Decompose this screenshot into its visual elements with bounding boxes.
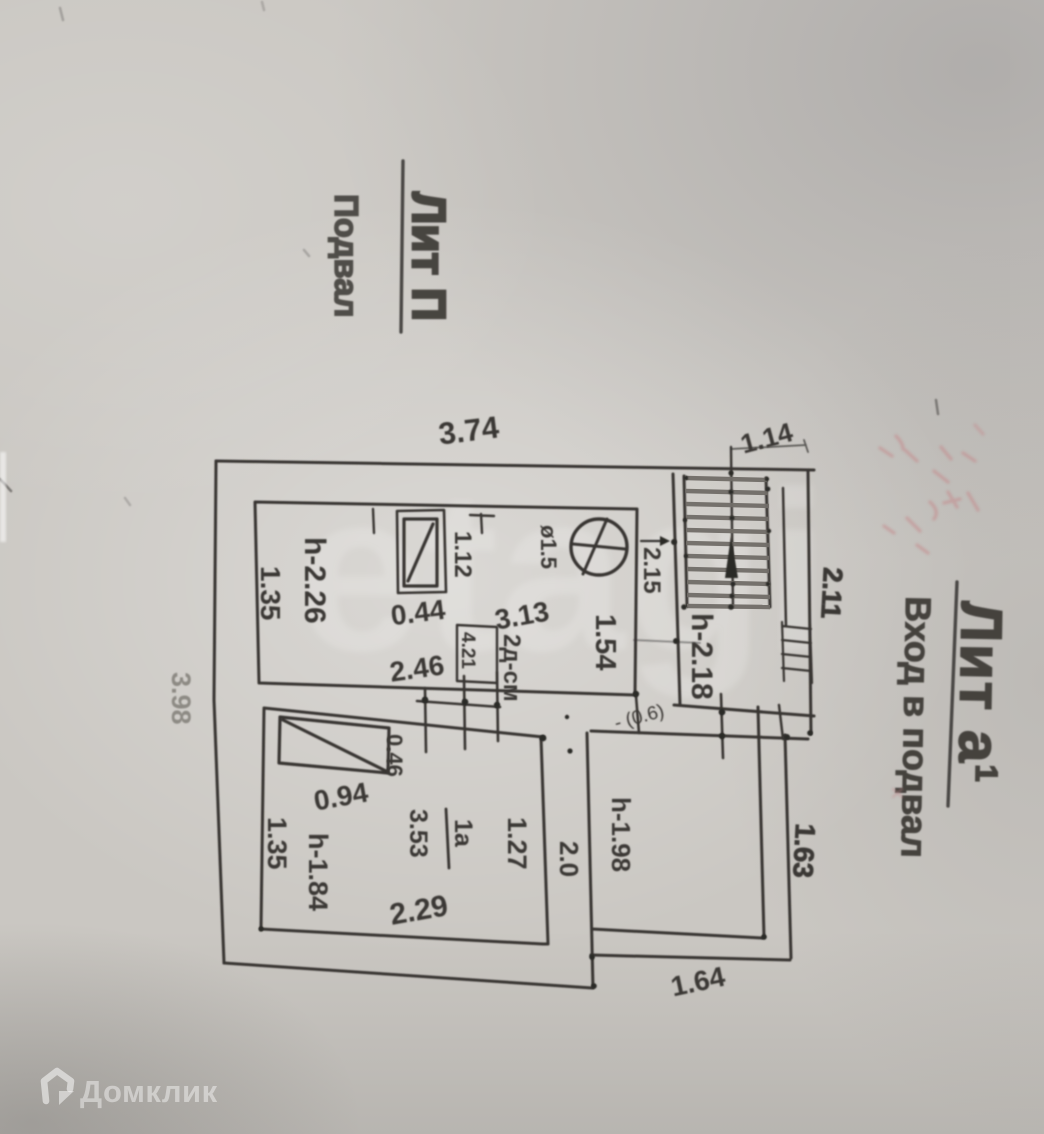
svg-text:Подвал: Подвал (328, 194, 365, 318)
svg-text:2.0: 2.0 (554, 841, 584, 877)
svg-text:3.98: 3.98 (166, 672, 196, 725)
svg-text:h-2.18: h-2.18 (685, 613, 718, 700)
svg-text:h-2.26: h-2.26 (298, 537, 331, 624)
svg-text:1.64: 1.64 (668, 961, 728, 1003)
svg-text:2.15: 2.15 (638, 547, 665, 594)
svg-text:4.21: 4.21 (457, 632, 478, 669)
svg-text:1а: 1а (449, 819, 477, 848)
svg-text:h-1.84: h-1.84 (303, 833, 333, 911)
svg-text:0.94: 0.94 (311, 776, 370, 816)
svg-text:1.63: 1.63 (787, 823, 821, 879)
svg-text:ø1.5: ø1.5 (536, 525, 561, 569)
svg-text:1.35: 1.35 (262, 817, 292, 870)
svg-text:1.35: 1.35 (255, 566, 286, 621)
svg-text:1.54: 1.54 (589, 614, 621, 670)
svg-text:Лит а1: Лит а1 (946, 601, 1014, 784)
svg-text:3.74: 3.74 (437, 409, 502, 451)
svg-text:3.53: 3.53 (404, 809, 432, 858)
svg-text:Лит П: Лит П (403, 192, 455, 321)
svg-text:h-1.98: h-1.98 (606, 797, 636, 872)
svg-text:Домклик: Домклик (80, 1074, 218, 1109)
svg-text:1.12: 1.12 (449, 531, 476, 578)
svg-text:Вход в подвал: Вход в подвал (893, 596, 939, 858)
svg-text:2.29: 2.29 (387, 889, 450, 932)
svg-text:0.46: 0.46 (382, 734, 407, 777)
svg-text:2д-см: 2д-см (498, 634, 525, 702)
svg-text:2.11: 2.11 (815, 567, 848, 620)
svg-text:1.27: 1.27 (502, 817, 532, 870)
